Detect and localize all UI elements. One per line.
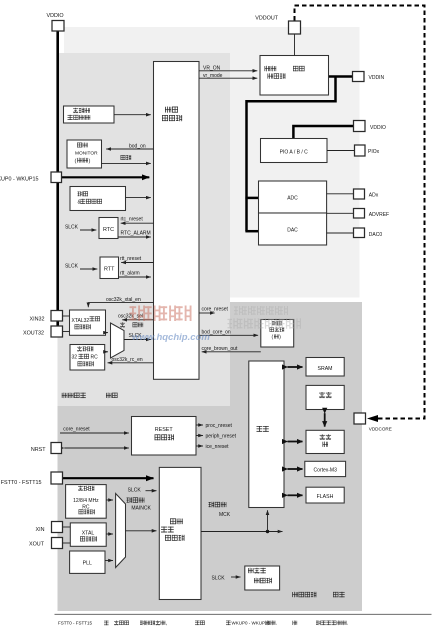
svg-text:osc32k_rc_en: osc32k_rc_en	[112, 357, 143, 363]
svg-text:vr_mode: vr_mode	[203, 73, 223, 79]
svg-text:SLCK: SLCK	[128, 487, 142, 493]
svg-text:&: &	[78, 199, 82, 205]
svg-text:XTAL: XTAL	[82, 531, 95, 537]
svg-text:rtt_alarm: rtt_alarm	[120, 271, 140, 277]
svg-text:PLL: PLL	[83, 560, 92, 566]
svg-text:RTC_ALARM: RTC_ALARM	[121, 231, 151, 237]
svg-text:SLCK: SLCK	[212, 575, 226, 581]
svg-text:core_nreset: core_nreset	[63, 426, 90, 432]
svg-text:XIN32: XIN32	[30, 316, 45, 322]
svg-text:ice_nreset: ice_nreset	[206, 444, 230, 450]
svg-text:WKUP0 - WKUP15: WKUP0 - WKUP15	[0, 176, 39, 182]
svg-text:,: ,	[166, 621, 167, 627]
svg-text:XIN: XIN	[36, 527, 45, 533]
svg-text:Cortex-M3: Cortex-M3	[314, 467, 338, 473]
svg-text:MONITOR: MONITOR	[75, 151, 98, 157]
svg-text:VDDCORE: VDDCORE	[369, 427, 392, 432]
svg-text:RESET: RESET	[155, 427, 174, 433]
svg-text:12/8/4 MHz: 12/8/4 MHz	[73, 498, 99, 504]
svg-text:.: .	[347, 621, 348, 627]
svg-text:VR_ON: VR_ON	[203, 65, 221, 71]
svg-text:rtc_nreset: rtc_nreset	[121, 217, 144, 223]
svg-text:RC: RC	[91, 354, 99, 360]
svg-text:NRST: NRST	[31, 447, 46, 453]
svg-text:WKUP0 - WKUP15: WKUP0 - WKUP15	[232, 621, 271, 626]
svg-text:bod_on: bod_on	[129, 143, 146, 149]
svg-text:www.hqchip.com: www.hqchip.com	[132, 332, 210, 343]
svg-text:(: (	[272, 334, 274, 340]
svg-text:DAC0: DAC0	[369, 232, 383, 238]
svg-text:MAINCK: MAINCK	[131, 506, 151, 512]
svg-text:32: 32	[72, 354, 78, 360]
svg-text:VDDIO: VDDIO	[370, 125, 386, 131]
svg-text:VDDIO: VDDIO	[47, 13, 64, 19]
svg-text:.: .	[276, 621, 277, 627]
svg-text:FSTT0 - FSTT15: FSTT0 - FSTT15	[58, 621, 93, 626]
svg-text:MCK: MCK	[219, 512, 231, 518]
svg-text:VDDIN: VDDIN	[369, 75, 385, 81]
svg-text:DAC: DAC	[287, 227, 298, 233]
svg-text:ADx: ADx	[369, 192, 379, 198]
svg-text:rtt_nreset: rtt_nreset	[120, 256, 142, 262]
svg-text:): )	[89, 158, 91, 164]
svg-text:(: (	[75, 158, 77, 164]
svg-text:PIOx: PIOx	[368, 149, 380, 155]
svg-text:SLCK: SLCK	[65, 225, 79, 231]
svg-text:core_brown_out: core_brown_out	[202, 346, 238, 352]
svg-text:SLCK: SLCK	[65, 264, 79, 270]
svg-text:FSTT0 - FSTT15: FSTT0 - FSTT15	[1, 480, 42, 486]
svg-text:RTC: RTC	[103, 227, 114, 233]
svg-text:PIO A / B / C: PIO A / B / C	[280, 149, 308, 155]
svg-text:proc_nreset: proc_nreset	[206, 423, 233, 429]
svg-text:periph_nreset: periph_nreset	[206, 434, 237, 440]
svg-text:SRAM: SRAM	[318, 366, 333, 372]
svg-text:FLASH: FLASH	[317, 494, 334, 500]
svg-text:XOUT32: XOUT32	[23, 330, 44, 336]
svg-text:XOUT: XOUT	[29, 541, 45, 547]
svg-text:XTAL32: XTAL32	[72, 318, 90, 324]
svg-text:VDDOUT: VDDOUT	[255, 16, 278, 22]
svg-text:RTT: RTT	[104, 267, 115, 273]
svg-text:): )	[279, 334, 281, 340]
svg-text:ADC: ADC	[287, 195, 298, 201]
svg-text:osc32k_xtal_en: osc32k_xtal_en	[106, 297, 141, 303]
svg-text:core_nreset: core_nreset	[202, 307, 229, 313]
svg-text:ADVREF: ADVREF	[369, 212, 389, 218]
